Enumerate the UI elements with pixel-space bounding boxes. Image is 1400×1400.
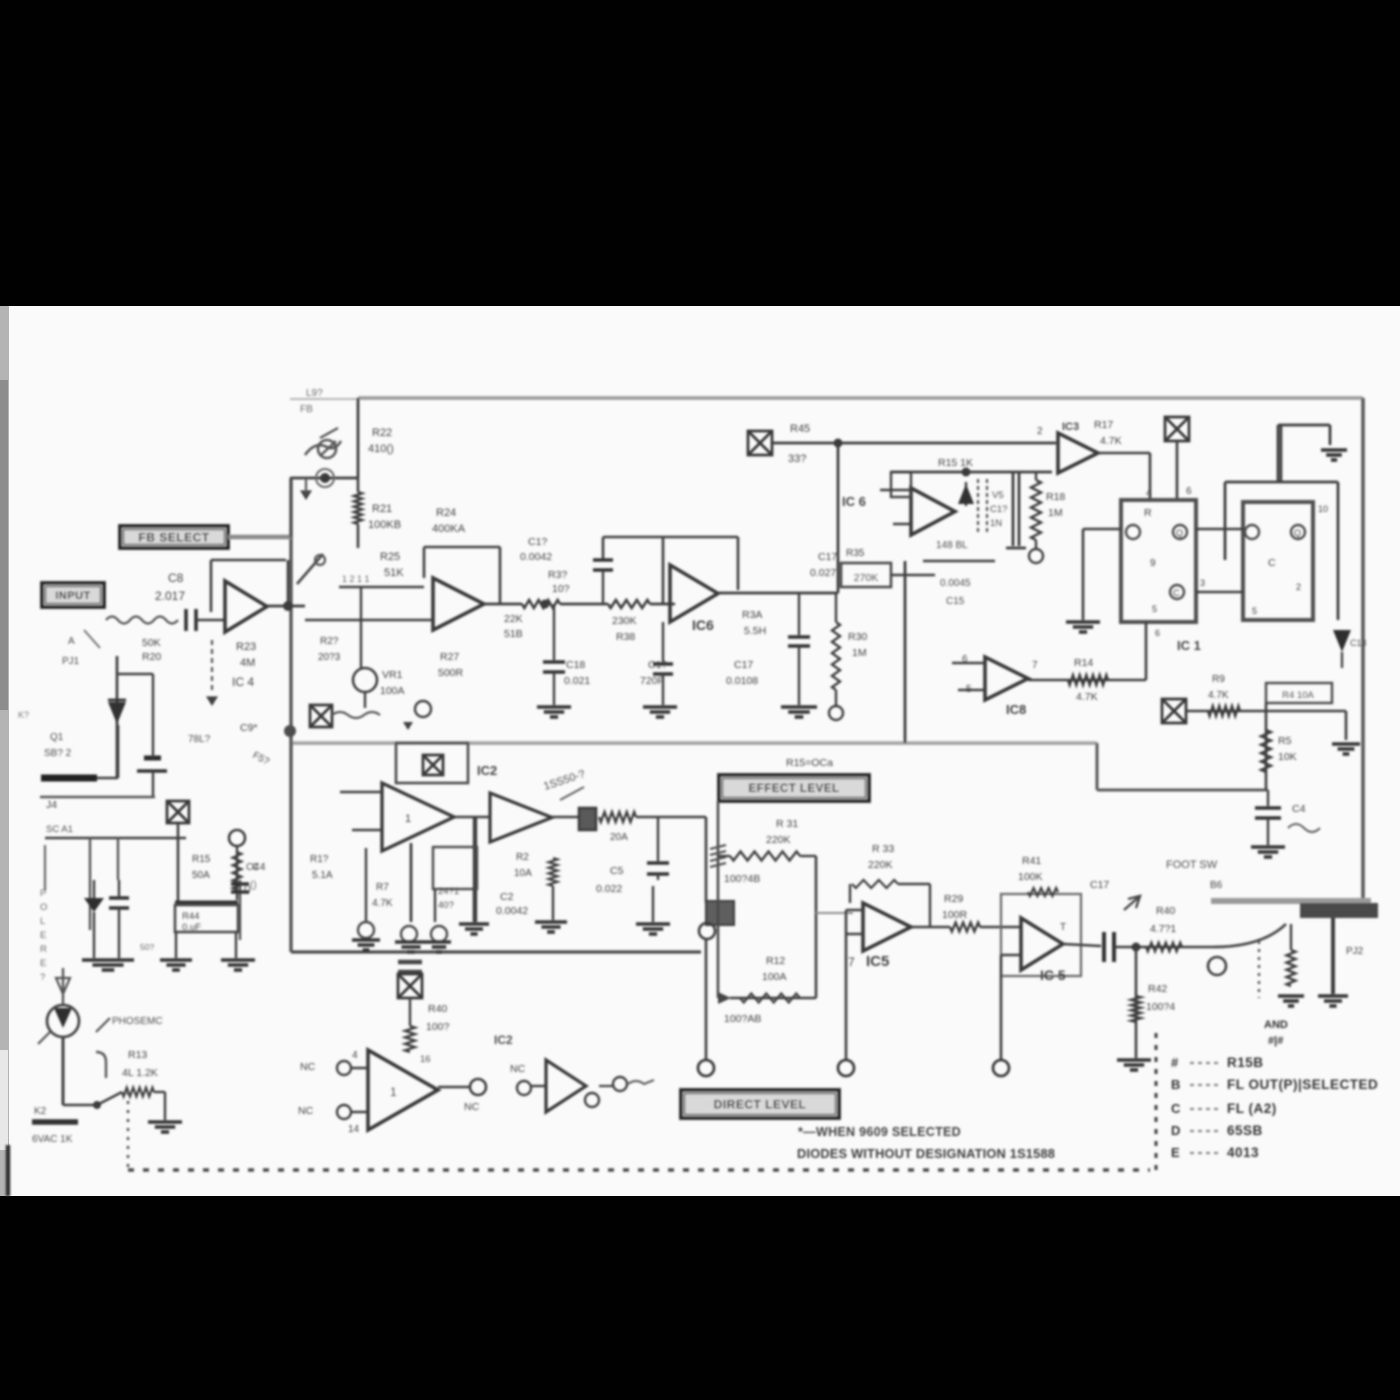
svg-text:FL (A2): FL (A2) bbox=[1227, 1101, 1277, 1116]
svg-text:C4: C4 bbox=[1292, 803, 1306, 815]
svg-text:K2: K2 bbox=[34, 1106, 47, 1117]
svg-text:720P: 720P bbox=[640, 675, 665, 687]
svg-text:R: R bbox=[1144, 507, 1152, 519]
svg-text:A: A bbox=[68, 636, 75, 647]
svg-text:4M: 4M bbox=[240, 657, 255, 669]
svg-text:IC8: IC8 bbox=[1006, 702, 1026, 717]
svg-text:22K: 22K bbox=[504, 613, 523, 625]
svg-text:FB SELECT: FB SELECT bbox=[138, 530, 209, 544]
svg-text:PHOSEMC: PHOSEMC bbox=[112, 1016, 163, 1027]
svg-text:R41: R41 bbox=[1022, 855, 1041, 867]
svg-text:10?: 10? bbox=[552, 583, 570, 595]
svg-text:R7: R7 bbox=[376, 882, 389, 893]
svg-text:IC2: IC2 bbox=[477, 763, 497, 778]
svg-text:R2: R2 bbox=[516, 852, 529, 863]
svg-text:0.021: 0.021 bbox=[564, 675, 590, 687]
svg-text:4.7K: 4.7K bbox=[372, 898, 393, 909]
svg-text:5: 5 bbox=[1252, 606, 1257, 616]
svg-text:(): () bbox=[250, 880, 257, 891]
svg-text:NC: NC bbox=[510, 1063, 526, 1075]
svg-text:R40: R40 bbox=[1156, 905, 1175, 917]
svg-text:100R: 100R bbox=[942, 909, 968, 921]
svg-text:R15: R15 bbox=[192, 854, 211, 865]
svg-text:NC: NC bbox=[300, 1061, 316, 1073]
svg-text:FB: FB bbox=[300, 404, 313, 415]
svg-text:2: 2 bbox=[1296, 582, 1301, 592]
svg-text:C17: C17 bbox=[818, 551, 837, 563]
svg-text:C: C bbox=[1171, 1101, 1181, 1116]
svg-text:R42: R42 bbox=[1148, 983, 1167, 995]
svg-text:L: L bbox=[40, 916, 45, 927]
svg-text:4.7?1: 4.7?1 bbox=[1150, 923, 1176, 935]
svg-text:?: ? bbox=[40, 972, 45, 983]
svg-text:C: C bbox=[1173, 588, 1180, 598]
svg-text:9: 9 bbox=[1150, 558, 1156, 569]
svg-text:R17: R17 bbox=[1094, 419, 1113, 431]
svg-text:R24: R24 bbox=[436, 507, 456, 519]
svg-text:INPUT: INPUT bbox=[55, 590, 91, 602]
svg-text:O: O bbox=[40, 902, 47, 913]
svg-text:16: 16 bbox=[420, 1054, 431, 1065]
svg-text:AND: AND bbox=[1264, 1019, 1288, 1031]
svg-text:R15=OCa: R15=OCa bbox=[786, 757, 833, 769]
svg-text:Q: Q bbox=[1294, 528, 1301, 538]
svg-text:C1?: C1? bbox=[648, 659, 667, 671]
svg-text:FL OUT(P)|SELECTED: FL OUT(P)|SELECTED bbox=[1227, 1077, 1378, 1092]
svg-text:500R: 500R bbox=[438, 667, 464, 679]
svg-text:R: R bbox=[40, 944, 47, 955]
svg-text:R4 10A: R4 10A bbox=[1282, 690, 1314, 701]
svg-text:1: 1 bbox=[405, 813, 411, 825]
svg-text:1: 1 bbox=[390, 1085, 397, 1099]
svg-text:4013: 4013 bbox=[1227, 1145, 1259, 1160]
svg-text:40?: 40? bbox=[438, 900, 454, 911]
svg-text:R2?: R2? bbox=[320, 636, 339, 647]
svg-text:E: E bbox=[40, 958, 46, 969]
svg-text:20?3: 20?3 bbox=[318, 652, 341, 663]
svg-text:R29: R29 bbox=[944, 893, 963, 905]
svg-text:R15B: R15B bbox=[1227, 1055, 1264, 1070]
svg-text:E: E bbox=[1171, 1145, 1180, 1160]
svg-text:R3A: R3A bbox=[742, 609, 762, 621]
svg-text:C5: C5 bbox=[610, 865, 624, 877]
svg-text:0.0045: 0.0045 bbox=[940, 578, 971, 589]
svg-text:R25: R25 bbox=[380, 551, 400, 563]
svg-text:R9: R9 bbox=[1212, 674, 1225, 685]
svg-text:R12: R12 bbox=[766, 955, 785, 967]
svg-text:7: 7 bbox=[1032, 660, 1038, 671]
svg-text:100?4: 100?4 bbox=[1146, 1001, 1175, 1013]
svg-text:FOOT SW: FOOT SW bbox=[1166, 859, 1218, 871]
svg-text:24?1: 24?1 bbox=[438, 886, 459, 897]
svg-text:51K: 51K bbox=[384, 567, 404, 579]
svg-text:P: P bbox=[40, 888, 46, 899]
svg-text:R3?: R3? bbox=[548, 569, 567, 581]
svg-text:100KB: 100KB bbox=[368, 519, 401, 531]
svg-text:R40: R40 bbox=[428, 1003, 447, 1015]
svg-text:R5: R5 bbox=[1278, 735, 1292, 747]
svg-text:C1?: C1? bbox=[990, 504, 1007, 515]
svg-text:0.027: 0.027 bbox=[810, 567, 836, 579]
svg-text:410(): 410() bbox=[368, 443, 394, 455]
svg-text:R23: R23 bbox=[236, 641, 256, 653]
svg-text:50A: 50A bbox=[192, 870, 210, 881]
svg-text:270K: 270K bbox=[854, 572, 879, 584]
svg-text:R45: R45 bbox=[790, 423, 810, 435]
svg-text:C18: C18 bbox=[566, 659, 585, 671]
svg-text:C1?: C1? bbox=[528, 536, 547, 548]
svg-text:SB? 2: SB? 2 bbox=[44, 748, 72, 759]
svg-text:100A: 100A bbox=[762, 971, 787, 983]
svg-text:C: C bbox=[1268, 557, 1276, 569]
svg-text:C2: C2 bbox=[500, 891, 514, 903]
svg-text:Q1: Q1 bbox=[50, 732, 64, 743]
svg-text:100?4B: 100?4B bbox=[724, 873, 760, 885]
svg-text:D: D bbox=[1171, 1123, 1180, 1138]
svg-text:IC 1: IC 1 bbox=[1177, 638, 1201, 653]
svg-text:IC 6: IC 6 bbox=[842, 494, 866, 509]
svg-text:0.022: 0.022 bbox=[596, 883, 622, 895]
svg-text:V5: V5 bbox=[992, 490, 1004, 501]
svg-text:100?: 100? bbox=[426, 1021, 450, 1033]
svg-text:IC 4: IC 4 bbox=[232, 675, 254, 689]
svg-text:R27: R27 bbox=[440, 651, 459, 663]
svg-text:R30: R30 bbox=[848, 631, 867, 643]
svg-text:0.0108: 0.0108 bbox=[726, 675, 758, 687]
svg-text:10K: 10K bbox=[1278, 751, 1297, 763]
svg-text:R38: R38 bbox=[616, 631, 635, 643]
svg-text:R18: R18 bbox=[1046, 491, 1065, 503]
svg-text:400KA: 400KA bbox=[432, 523, 466, 535]
svg-text:R21: R21 bbox=[372, 503, 392, 515]
svg-text:R35: R35 bbox=[846, 548, 865, 559]
svg-text:C9*: C9* bbox=[240, 722, 258, 734]
svg-text:1 2 1 1: 1 2 1 1 bbox=[342, 574, 370, 584]
svg-text:K?: K? bbox=[18, 710, 29, 720]
svg-text:T: T bbox=[1060, 922, 1066, 933]
svg-text:C15: C15 bbox=[946, 596, 965, 607]
svg-text:IC6: IC6 bbox=[692, 617, 714, 633]
svg-text:R1?: R1? bbox=[310, 854, 329, 865]
svg-text:R13: R13 bbox=[128, 1049, 147, 1061]
svg-text:4.7K: 4.7K bbox=[1100, 435, 1122, 447]
svg-text:L9?: L9? bbox=[306, 388, 323, 399]
svg-text:2.017: 2.017 bbox=[155, 589, 185, 603]
svg-text:1N: 1N bbox=[990, 518, 1002, 529]
svg-text:10A: 10A bbox=[514, 868, 532, 879]
svg-text:IC2: IC2 bbox=[494, 1033, 513, 1047]
svg-text:R14: R14 bbox=[1074, 657, 1093, 669]
svg-text:Q: Q bbox=[1176, 528, 1183, 538]
svg-text:65SB: 65SB bbox=[1227, 1123, 1263, 1138]
svg-text:6VAC 1K: 6VAC 1K bbox=[32, 1134, 73, 1145]
svg-text:C4: C4 bbox=[246, 862, 259, 873]
svg-text:4: 4 bbox=[352, 1050, 358, 1061]
svg-text:B: B bbox=[1171, 1077, 1180, 1092]
svg-text:0.0042: 0.0042 bbox=[496, 905, 528, 917]
svg-text:4.7K: 4.7K bbox=[1076, 691, 1098, 703]
svg-text:J4: J4 bbox=[46, 799, 57, 811]
svg-text:NC: NC bbox=[298, 1105, 314, 1117]
svg-text:1M: 1M bbox=[852, 647, 867, 659]
svg-text:2: 2 bbox=[1037, 426, 1043, 437]
svg-text:5.5H: 5.5H bbox=[744, 625, 766, 637]
svg-text:C13: C13 bbox=[1350, 638, 1367, 648]
svg-text:NC: NC bbox=[464, 1101, 480, 1113]
svg-text:4L 1.2K: 4L 1.2K bbox=[122, 1067, 158, 1079]
svg-text:EFFECT LEVEL: EFFECT LEVEL bbox=[749, 783, 840, 795]
svg-text:R 33: R 33 bbox=[872, 843, 894, 855]
svg-text:20A: 20A bbox=[610, 832, 628, 843]
svg-text:SC A1: SC A1 bbox=[46, 824, 73, 835]
svg-text:5: 5 bbox=[1152, 604, 1157, 614]
svg-text:IC5: IC5 bbox=[866, 953, 889, 970]
svg-text:1M: 1M bbox=[1048, 507, 1063, 519]
svg-text:5.1A: 5.1A bbox=[312, 870, 333, 881]
svg-text:14: 14 bbox=[348, 1124, 360, 1135]
svg-text:0.0042: 0.0042 bbox=[520, 551, 552, 563]
svg-text:R15 1K: R15 1K bbox=[938, 457, 973, 469]
svg-text:#|#: #|# bbox=[1268, 1035, 1283, 1047]
svg-text:100K: 100K bbox=[1018, 871, 1043, 883]
svg-text:R20: R20 bbox=[142, 651, 161, 663]
svg-text:R 31: R 31 bbox=[776, 818, 798, 830]
svg-text:R44: R44 bbox=[182, 911, 199, 922]
svg-text:6: 6 bbox=[1155, 628, 1160, 638]
svg-text:78L?: 78L? bbox=[188, 734, 211, 745]
svg-text:148 BL: 148 BL bbox=[936, 540, 968, 551]
svg-text:C17: C17 bbox=[1090, 879, 1109, 891]
svg-text:C17: C17 bbox=[734, 659, 753, 671]
svg-text:R22: R22 bbox=[372, 427, 392, 439]
svg-text:100A: 100A bbox=[380, 685, 405, 697]
svg-text:PJ1: PJ1 bbox=[62, 656, 80, 667]
svg-text:50?: 50? bbox=[140, 942, 154, 952]
svg-text:100?AB: 100?AB bbox=[724, 1013, 761, 1025]
svg-text:50K: 50K bbox=[142, 637, 161, 649]
svg-text:10: 10 bbox=[1318, 504, 1328, 514]
svg-text:230K: 230K bbox=[612, 615, 637, 627]
svg-text:B6: B6 bbox=[1210, 880, 1223, 891]
svg-text:33?: 33? bbox=[788, 453, 806, 465]
svg-text:IC 5: IC 5 bbox=[1040, 967, 1066, 983]
svg-text:DIODES WITHOUT DESIGNATION 1S: DIODES WITHOUT DESIGNATION 1S1588 bbox=[797, 1146, 1055, 1161]
svg-text:51B: 51B bbox=[504, 628, 523, 640]
svg-text:PJ2: PJ2 bbox=[1346, 946, 1364, 957]
svg-text:220K: 220K bbox=[868, 859, 893, 871]
svg-text:*—WHEN 9609 SELECTED: *—WHEN 9609 SELECTED bbox=[798, 1125, 961, 1139]
svg-text:C8: C8 bbox=[168, 571, 184, 585]
svg-text:3: 3 bbox=[1200, 578, 1205, 588]
svg-text:7: 7 bbox=[848, 955, 855, 969]
svg-text:0.uF: 0.uF bbox=[182, 922, 201, 933]
svg-text:#: # bbox=[1171, 1055, 1179, 1070]
svg-text:VR1: VR1 bbox=[382, 669, 403, 681]
svg-text:IC3: IC3 bbox=[1062, 421, 1079, 433]
svg-text:4: 4 bbox=[1146, 488, 1152, 499]
svg-text:E: E bbox=[40, 930, 46, 941]
svg-text:6: 6 bbox=[1186, 486, 1192, 497]
svg-text:220K: 220K bbox=[766, 834, 791, 846]
svg-text:DIRECT LEVEL: DIRECT LEVEL bbox=[714, 1097, 807, 1111]
svg-text:4.7K: 4.7K bbox=[1208, 690, 1229, 701]
